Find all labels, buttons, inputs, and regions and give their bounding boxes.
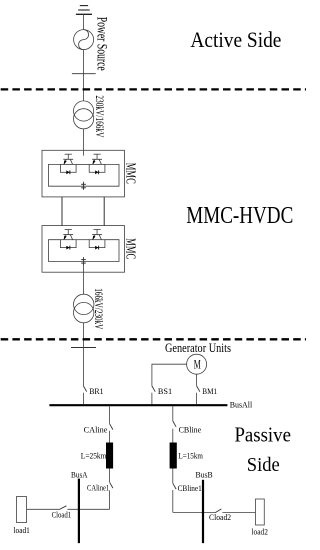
IGBT lead (96, 230, 98, 235)
wire CAline1 corner to load wire (67, 508, 109, 510)
node tick (passive bus) (71, 347, 96, 349)
wire T2 to passive network (82, 323, 84, 386)
submodule loop (49, 240, 120, 262)
IGBT bar (63, 234, 73, 236)
svg-text:Passive: Passive (234, 422, 291, 446)
wire source to node (82, 50, 84, 101)
svg-text:load1: load1 (14, 526, 30, 535)
bus BusA (78, 479, 80, 543)
IGBT collector line (70, 159, 72, 164)
dashed separator 2 (1, 338, 306, 340)
exit stub (82, 262, 84, 273)
svg-text:BR1: BR1 (89, 387, 103, 396)
IGBT bar (63, 158, 73, 160)
IGBT lead (67, 154, 69, 159)
svg-text:Power Source: Power Source (93, 17, 109, 71)
breaker Cload2 (215, 509, 255, 513)
svg-text:230kV/166kV: 230kV/166kV (93, 95, 105, 137)
svg-text:CBline1: CBline1 (178, 484, 202, 493)
breaker Cload1 (27, 506, 67, 510)
MMC outer box (42, 226, 125, 273)
IGBT collector tick (93, 229, 100, 231)
svg-text:MMC: MMC (123, 163, 138, 184)
free-wheel diode (66, 246, 69, 250)
IGBT emitter line with arrow (64, 159, 66, 164)
IGBT bar (92, 158, 102, 160)
DC link wire right (103, 197, 105, 226)
IGBT emitter line with arrow (93, 159, 95, 164)
dashed separator 1 (1, 88, 306, 90)
IGBT collector line (99, 235, 101, 240)
breaker CAline1 (110, 469, 113, 510)
loop link between cells (76, 163, 89, 165)
node tick (active bus) (72, 73, 96, 75)
svg-text:Generator Units: Generator Units (165, 340, 231, 355)
IGBT lead (67, 230, 69, 235)
transformer T1 (74, 101, 94, 129)
svg-text:CAline: CAline (84, 426, 108, 435)
svg-text:CBline: CBline (179, 426, 202, 435)
IGBT bar (92, 234, 102, 236)
bus BusAll (49, 404, 227, 406)
breaker CBline (173, 406, 176, 442)
transformer T2 (74, 294, 94, 323)
breaker BS1 (152, 386, 155, 404)
svg-text:BM1: BM1 (202, 387, 217, 396)
breaker BM1 (197, 386, 200, 404)
IGBT collector line (70, 235, 72, 240)
svg-text:MMC: MMC (123, 238, 138, 259)
svg-text:Cload1: Cload1 (52, 511, 72, 520)
free-wheel diode (66, 170, 69, 174)
IGBT collector tick (93, 153, 100, 155)
cell box (89, 164, 105, 172)
IGBT emitter line with arrow (64, 235, 66, 240)
free-wheel diode (95, 170, 98, 174)
svg-text:MMC-HVDC: MMC-HVDC (186, 203, 293, 229)
cell box (89, 240, 105, 248)
breaker CAline (110, 406, 113, 442)
load1 (17, 497, 27, 523)
bus BusB (202, 480, 204, 543)
cell box (60, 164, 76, 172)
svg-text:L=25km: L=25km (81, 452, 107, 461)
svg-text:CAline1: CAline1 (87, 484, 109, 493)
wire MMC2 to T2 (82, 272, 84, 294)
ground (76, 6, 92, 15)
cable A (L=25km) (106, 443, 113, 469)
load2 (256, 499, 265, 525)
svg-text:Cload2: Cload2 (209, 513, 231, 522)
breaker CBline1 (173, 469, 176, 513)
svg-text:load2: load2 (252, 528, 268, 537)
DC capacitor (81, 257, 86, 265)
submodule loop (49, 164, 120, 186)
IGBT collector tick (65, 229, 72, 231)
IGBT collector tick (65, 153, 72, 155)
breaker BR1 (83, 386, 86, 404)
DC link wire left (61, 197, 63, 226)
svg-text:Side: Side (247, 454, 280, 476)
cell box (60, 240, 76, 248)
IGBT emitter line with arrow (93, 235, 95, 240)
free-wheel diode (95, 246, 98, 250)
MMC outer box (42, 150, 125, 197)
IGBT lead (96, 154, 98, 159)
IGBT collector line (99, 159, 101, 164)
svg-text:BS1: BS1 (158, 387, 172, 396)
DC capacitor (81, 182, 86, 190)
generator M (187, 354, 207, 374)
svg-text:BusAll: BusAll (230, 401, 253, 410)
cable B (L=15km) (170, 443, 177, 469)
loop link between cells (76, 239, 89, 241)
wire CBline1 corner to load wire (173, 511, 215, 513)
wire generator to BM1 (196, 374, 198, 386)
svg-text:BusB: BusB (196, 471, 213, 480)
power source AC symbol (74, 30, 94, 50)
entry stub (82, 150, 84, 155)
svg-text:M: M (194, 356, 201, 371)
svg-text:L=15km: L=15km (178, 452, 203, 461)
wire T1 to MMC1 (82, 129, 84, 150)
wire generator to BS1 branch (152, 364, 187, 386)
svg-text:Active Side: Active Side (190, 27, 281, 52)
wire ground to source (82, 14, 84, 29)
svg-text:166kV/230kV: 166kV/230kV (92, 288, 104, 329)
svg-text:BusA: BusA (71, 471, 88, 480)
